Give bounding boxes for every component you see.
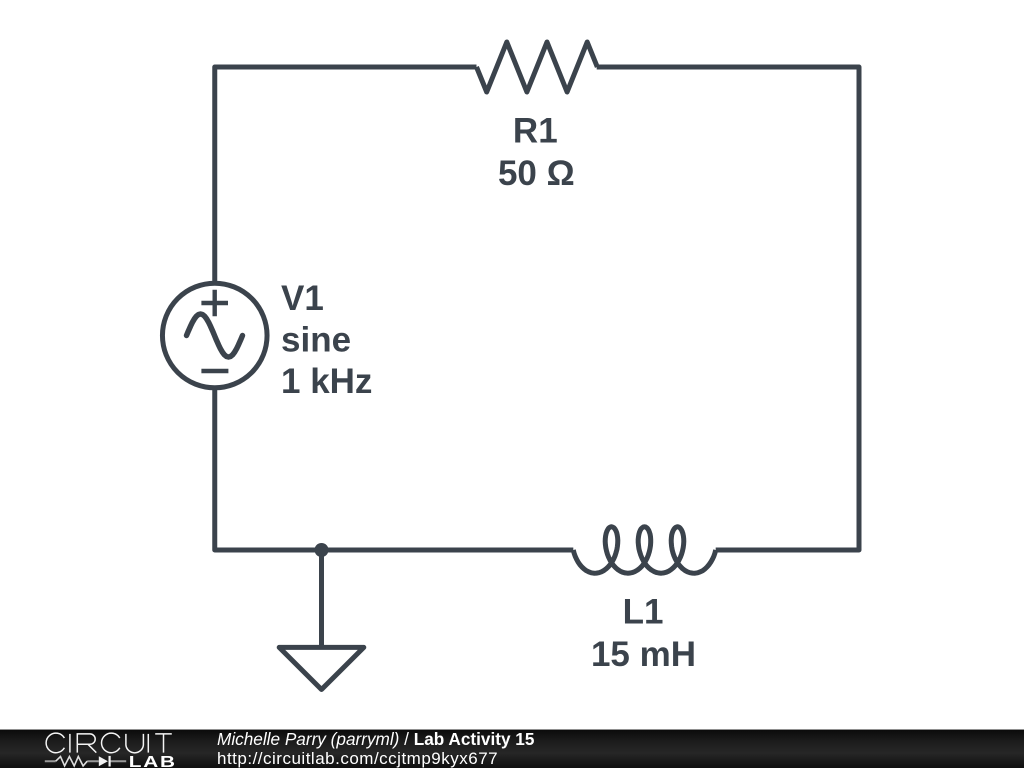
CircuitLab logo — [0, 730, 180, 768]
V1 plus sign — [201, 290, 228, 316]
svg-text:LAB: LAB — [129, 752, 177, 768]
V1 sine wave — [187, 314, 243, 357]
svg-text:sine: sine — [281, 320, 351, 359]
logo letter I — [69, 734, 71, 753]
ground triangle — [279, 647, 364, 689]
wire top-right + right vertical + bottom-right to L1 — [597, 67, 859, 550]
inductor L1 coil — [573, 527, 715, 573]
svg-text:V1: V1 — [281, 279, 324, 318]
logo resistor zigzag — [56, 757, 87, 766]
resistor R1 — [477, 42, 598, 92]
logo diode — [99, 756, 108, 766]
svg-text:50 Ω: 50 Ω — [498, 154, 575, 193]
logo letter T — [155, 734, 172, 753]
wire V1 bottom + bottom-left corner to L1 left — [215, 390, 574, 551]
logo letter R — [77, 734, 96, 753]
logo letter C — [46, 733, 64, 753]
V1 minus sign — [201, 369, 228, 373]
logo resistor wire — [45, 760, 126, 762]
wire top-left + left vertical to V1 top — [215, 67, 477, 282]
footer bar — [0, 729, 1024, 768]
ground stem wire — [319, 550, 324, 647]
logo letter C2 — [102, 733, 120, 753]
svg-text:L1: L1 — [623, 593, 664, 632]
voltage source V1 circle — [162, 283, 267, 388]
node junction dot — [315, 543, 329, 557]
logo letter I2 — [147, 734, 149, 753]
footer credit text — [217, 730, 534, 768]
logo letter U — [126, 734, 143, 753]
svg-text:1 kHz: 1 kHz — [281, 362, 372, 401]
svg-text:R1: R1 — [513, 112, 558, 151]
svg-text:15 mH: 15 mH — [591, 635, 696, 674]
logo diode bar — [108, 756, 110, 767]
